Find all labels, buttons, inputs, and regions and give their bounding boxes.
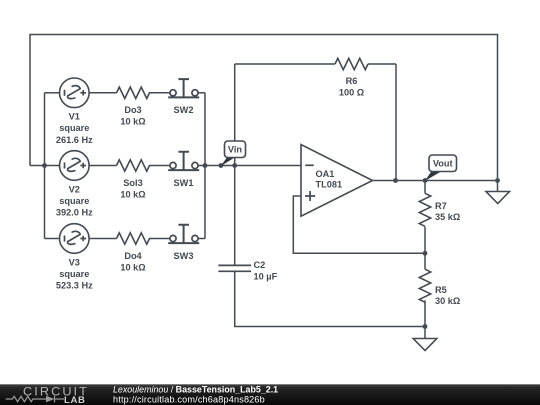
wire R6 loop right vertical to output — [395, 64, 397, 181]
op-amp OA1 — [301, 145, 373, 217]
svg-text:SW2: SW2 — [174, 105, 194, 115]
capacitor C2 branch wire top — [234, 166, 236, 266]
resistor Do4 — [117, 233, 150, 244]
wire SW2 right — [198, 92, 205, 94]
voltage source V3 — [60, 224, 90, 254]
resistor R6 — [335, 58, 368, 69]
label Sol3 10 kOhm — [120, 178, 145, 200]
svg-text:square: square — [59, 123, 89, 133]
wire Do3 to SW2 — [149, 92, 170, 94]
wire V1 row left — [45, 92, 60, 94]
svg-text:523.3 Hz: 523.3 Hz — [56, 281, 93, 291]
label R6 100 Ohm — [339, 76, 364, 98]
resistor Sol3 — [117, 160, 150, 171]
svg-text:Sol3: Sol3 — [123, 178, 142, 188]
junction R6 loop at output — [393, 178, 398, 183]
capacitor C2 — [218, 265, 251, 271]
junction divider mid node — [423, 251, 428, 256]
wire left bus to sources — [30, 165, 45, 167]
wire R6 loop top left — [235, 63, 335, 65]
svg-text:Vout: Vout — [433, 159, 453, 169]
wire V3 source to Do4 — [89, 238, 116, 240]
label Do3 10 kOhm — [120, 105, 145, 127]
svg-text:V3: V3 — [69, 257, 80, 267]
junction R6/C2 branch on Vin row — [232, 163, 237, 168]
junction SW2/SW3 join on Vin row — [203, 163, 208, 168]
wire SW3 up to Vin row — [204, 166, 206, 239]
svg-text:LAB: LAB — [64, 395, 86, 405]
svg-text:100 Ω: 100 Ω — [339, 87, 364, 97]
wire V1 source to Do3 — [89, 92, 116, 94]
svg-text:R7: R7 — [435, 201, 447, 211]
svg-text:Do3: Do3 — [124, 105, 141, 115]
svg-text:V2: V2 — [69, 184, 80, 194]
wire SW2 down to Vin row — [204, 93, 206, 166]
wire Sol3 to SW1 — [149, 165, 170, 167]
ground right — [486, 181, 510, 204]
voltage source V1 — [60, 78, 90, 108]
label Do4 10 kOhm — [120, 251, 145, 273]
svg-text:30 kΩ: 30 kΩ — [435, 296, 460, 306]
resistor Do3 — [117, 87, 150, 98]
CircuitLab logo — [6, 385, 89, 405]
label V2 square 392.0 Hz — [56, 184, 93, 217]
label OA1 TL081 — [316, 169, 343, 190]
wire top ground rail — [30, 35, 498, 181]
svg-text:OA1: OA1 — [316, 169, 335, 179]
wire op-amp plus input to divider — [293, 196, 425, 253]
wire R7 to mid node — [424, 227, 426, 270]
svg-text:392.0 Hz: 392.0 Hz — [56, 208, 93, 218]
svg-text:V1: V1 — [69, 112, 80, 122]
wire V2 source to Sol3 — [89, 165, 116, 167]
junction source bus V2 — [42, 163, 47, 168]
label R5 30 kOhm — [435, 285, 460, 306]
svg-text:square: square — [59, 269, 89, 279]
svg-text:Lexouleminou / BasseTension_La: Lexouleminou / BasseTension_Lab5_2.1 — [113, 385, 278, 395]
label V1 square 261.6 Hz — [56, 112, 93, 145]
label V3 square 523.3 Hz — [56, 257, 93, 290]
svg-text:10 kΩ: 10 kΩ — [120, 262, 145, 272]
wire Do4 to SW3 — [149, 238, 170, 240]
switch SW3 — [168, 225, 199, 243]
wire R6 loop top right — [368, 63, 396, 65]
svg-text:R5: R5 — [435, 285, 447, 295]
resistor R7 — [419, 193, 430, 226]
wire C2 bottom to ground rail — [235, 272, 425, 327]
ground bottom — [413, 327, 437, 351]
svg-text:Vin: Vin — [228, 145, 243, 155]
node Vout flag — [425, 155, 457, 181]
wire R5 to bottom ground node — [424, 300, 426, 326]
resistor R5 — [419, 269, 430, 302]
wire output down to R7 — [424, 181, 426, 194]
wire V2 row left — [45, 165, 60, 167]
wire SW3 right — [198, 238, 205, 240]
node Vin flag — [221, 141, 246, 166]
svg-text:square: square — [59, 196, 89, 206]
svg-text:SW3: SW3 — [174, 251, 194, 261]
svg-text:261.6 Hz: 261.6 Hz — [56, 135, 93, 145]
wire R6 feedback loop left vertical — [234, 64, 236, 166]
svg-text:TL081: TL081 — [316, 180, 343, 190]
voltage source V2 — [60, 151, 90, 181]
junction bottom ground node — [423, 324, 428, 329]
junction right rail at ground — [495, 178, 500, 183]
switch SW1 — [168, 152, 199, 170]
svg-text:10 kΩ: 10 kΩ — [120, 189, 145, 199]
junction Vout node — [423, 178, 428, 183]
wire source bus vertical — [44, 93, 46, 239]
wire Vin row SW1 to op-amp minus input — [198, 165, 301, 167]
label C2 10 uF — [254, 260, 278, 282]
junction Vin flag anchor — [219, 163, 224, 168]
svg-text:SW1: SW1 — [174, 178, 194, 188]
svg-text:10 kΩ: 10 kΩ — [120, 117, 145, 127]
svg-text:R6: R6 — [346, 76, 358, 86]
footer bar — [0, 384, 540, 405]
wire V3 row left — [45, 238, 60, 240]
wire op-amp output row — [373, 180, 498, 182]
switch SW2 — [168, 79, 199, 97]
label R7 35 kOhm — [435, 201, 460, 222]
svg-text:10 µF: 10 µF — [254, 271, 278, 281]
svg-text:C2: C2 — [254, 260, 266, 270]
svg-text:http://circuitlab.com/ch6a8p4n: http://circuitlab.com/ch6a8p4ns826b — [113, 394, 265, 404]
svg-text:35 kΩ: 35 kΩ — [435, 212, 460, 222]
svg-text:Do4: Do4 — [124, 251, 142, 261]
